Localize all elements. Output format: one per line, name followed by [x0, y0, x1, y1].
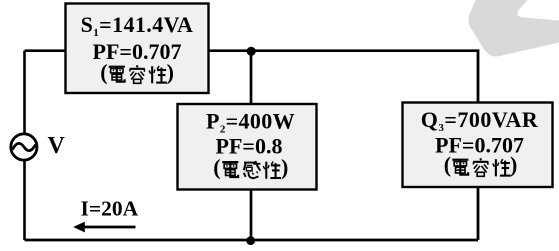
load box S1 [66, 4, 209, 94]
junction node bottom [246, 236, 255, 245]
wire: right vertical branch [477, 49, 480, 240]
wire: left vertical branch [23, 51, 26, 240]
load box P2 [178, 104, 317, 190]
svg-text:(: ( [444, 152, 451, 177]
svg-text:(: ( [213, 155, 220, 180]
wire: bottom horizontal [25, 239, 479, 242]
wire: middle vertical branch [250, 51, 253, 240]
S1 type label (capacitive) [100, 59, 174, 84]
svg-text:P2=400W: P2=400W [206, 108, 295, 135]
svg-text:): ) [510, 152, 517, 177]
svg-text:I=20A: I=20A [81, 197, 139, 221]
wire: top horizontal [25, 49, 479, 52]
svg-text:(: ( [100, 59, 107, 84]
svg-text:): ) [167, 59, 174, 84]
load box Q3 [403, 103, 553, 188]
gray watermark shape top-right [468, 0, 559, 57]
svg-text:): ) [281, 155, 288, 180]
svg-text:V: V [48, 133, 66, 159]
current arrow I [73, 222, 135, 233]
Q3 type label (capacitive) [444, 152, 518, 177]
svg-text:PF=0.8: PF=0.8 [216, 134, 283, 159]
AC voltage source V [11, 134, 37, 160]
P2 type label (inductive) [213, 155, 288, 180]
junction node top [247, 47, 256, 56]
